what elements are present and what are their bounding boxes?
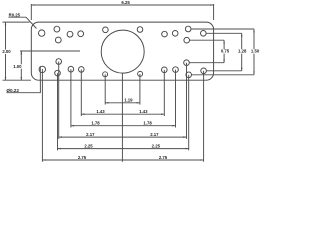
svg-text:R0.25: R0.25 [9,12,21,17]
svg-text:2.25: 2.25 [84,144,93,149]
svg-text:2.75: 2.75 [78,155,87,160]
svg-text:6.25: 6.25 [121,0,130,5]
svg-text:2.00: 2.00 [2,49,11,54]
svg-text:2.75: 2.75 [159,155,168,160]
svg-text:Ø0.22: Ø0.22 [6,88,19,93]
svg-text:0.75: 0.75 [221,49,230,54]
svg-text:2.17: 2.17 [86,132,95,137]
svg-text:1.19: 1.19 [124,98,133,103]
svg-text:1.28: 1.28 [238,49,247,54]
svg-text:1.43: 1.43 [139,109,148,114]
svg-text:2.25: 2.25 [152,144,161,149]
svg-text:2.17: 2.17 [150,132,159,137]
svg-text:1.78: 1.78 [143,121,152,126]
svg-text:1.43: 1.43 [96,109,105,114]
svg-text:1.00: 1.00 [13,64,22,69]
svg-text:1.78: 1.78 [91,121,100,126]
svg-text:1.50: 1.50 [251,49,260,54]
